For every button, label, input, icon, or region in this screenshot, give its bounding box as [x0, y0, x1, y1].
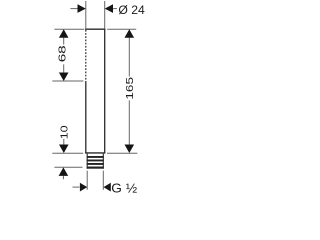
svg-text:165: 165	[125, 77, 136, 100]
svg-text:G ½: G ½	[111, 181, 137, 196]
svg-text:68: 68	[58, 45, 69, 62]
svg-text:10: 10	[60, 125, 71, 139]
svg-text:Ø 24: Ø 24	[118, 3, 145, 17]
